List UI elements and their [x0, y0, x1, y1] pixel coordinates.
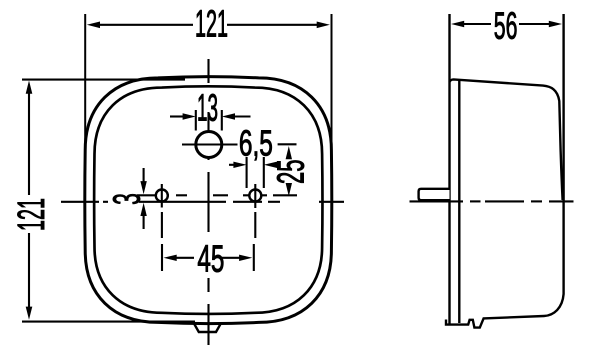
- svg-text:121: 121: [195, 4, 228, 46]
- bottom trapezoid notch: [194, 323, 221, 332]
- dimension 45: extension lines: [161, 244, 163, 271]
- svg-text:25: 25: [270, 160, 312, 185]
- side view tab: [419, 189, 450, 200]
- dimension 25: bottom arrow: [286, 183, 292, 196]
- dimension 6,5: left arrow and shaft: [229, 164, 235, 166]
- front view inner outline: [94, 86, 322, 314]
- dimension 25: top arrow: [286, 146, 292, 159]
- right mounting hole: [249, 190, 261, 202]
- vertical centerline: [207, 59, 209, 345]
- side view right edge and bottom: [446, 14, 564, 328]
- svg-text:6,5: 6,5: [239, 122, 273, 163]
- side view left outer vertical (mounting face): [448, 14, 450, 325]
- dimension 6,5: right arrow and shaft: [275, 164, 280, 166]
- dimension 45: right arrow and shaft: [222, 257, 240, 259]
- dimension 45: left arrow and shaft: [175, 257, 194, 259]
- dimension 13: extension lines: [195, 110, 197, 131]
- view horizontal centerline: [61, 201, 344, 203]
- big hole (13mm): [196, 132, 222, 158]
- svg-text:3: 3: [106, 193, 148, 205]
- dimension 13: right arrow and shaft: [233, 115, 251, 117]
- dimension 121 left: dimension line: [28, 92, 30, 195]
- svg-text:56: 56: [494, 6, 518, 48]
- right hole vertical crosshair: [254, 184, 256, 208]
- dimension 56: left arrow: [451, 21, 464, 27]
- side view lens top edge: [450, 79, 563, 200]
- side view centerline: [410, 200, 574, 202]
- dimension 121 left: top arrow: [26, 81, 33, 94]
- dimension 13: left arrow and shaft: [170, 115, 184, 117]
- svg-text:13: 13: [197, 88, 218, 130]
- dimension 6,5: extension lines: [246, 157, 248, 188]
- right hole dashed line below: [254, 212, 256, 238]
- svg-text:121: 121: [11, 198, 53, 231]
- dimension 121 left: extension lines: [22, 79, 185, 81]
- dimension 3: bottom arrow and shaft: [143, 215, 145, 229]
- dimension 121 top: extension lines: [84, 14, 86, 170]
- dimension 56: dimension line: [463, 23, 491, 25]
- svg-text:45: 45: [197, 238, 224, 280]
- big hole horizontal crosshair: [182, 143, 238, 145]
- left hole dashed line below: [161, 212, 163, 238]
- dimension 25: top reference tick: [278, 143, 297, 145]
- dimension 3: top arrow and shaft: [143, 168, 145, 182]
- dimension 121 left: bottom arrow: [26, 307, 33, 320]
- left mounting hole: [156, 190, 168, 202]
- dimension 121 top: left arrow: [87, 22, 100, 29]
- dimension 56: right arrow: [549, 21, 562, 27]
- dimension 121 top: dimension line: [99, 24, 193, 26]
- front view outer outline: [85, 77, 332, 324]
- hole centerline (through mounting holes): [137, 194, 297, 196]
- left hole vertical crosshair: [161, 184, 163, 208]
- dimension 121 top: right arrow: [317, 22, 330, 29]
- side view left inner vertical: [458, 80, 460, 323]
